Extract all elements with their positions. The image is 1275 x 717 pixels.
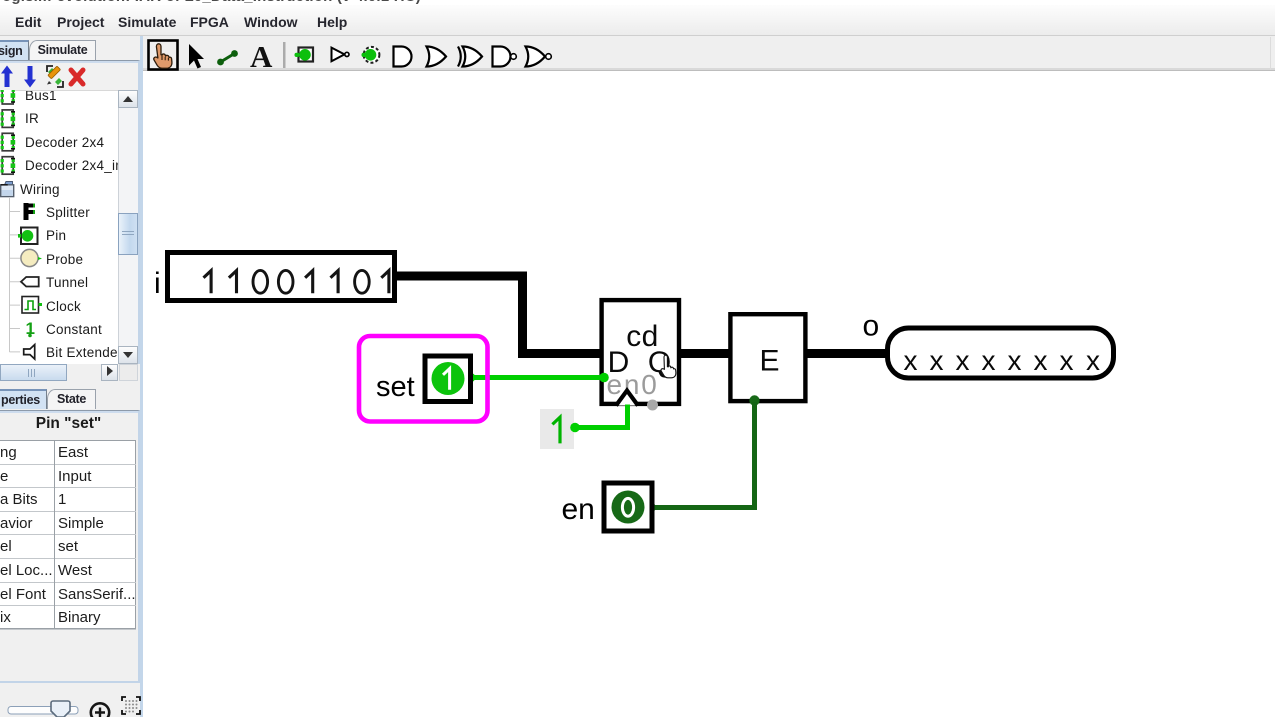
wire bus from pin i to register D <box>396 276 608 354</box>
tree rows <box>0 91 118 364</box>
bottom tabs <box>0 389 47 409</box>
wire en to E enable (value 0, dark green) <box>651 402 755 508</box>
controlled buffer E <box>730 314 805 401</box>
chips for Bus1 / IR / Decoder / Decoder_in <box>1 87 16 175</box>
top tabs <box>0 40 29 60</box>
E enable pin dot <box>749 395 759 405</box>
divider and canvas <box>140 36 143 717</box>
clock icon <box>22 297 39 314</box>
poke cursor at Q <box>661 355 676 378</box>
menu bar <box>0 5 1275 36</box>
wire constant to clock (value 1) <box>575 405 628 428</box>
tree box <box>0 60 140 382</box>
tree v-scrollbar <box>118 90 138 364</box>
wire set to register en (value 1, bright green) <box>471 375 605 380</box>
value 11001101 <box>204 270 389 293</box>
splitter icon <box>24 203 29 220</box>
probe icon <box>21 249 38 266</box>
wire bus register Q to E <box>672 349 733 358</box>
clock input triangle <box>616 391 638 406</box>
selection halo (magenta) around pin set <box>359 336 488 422</box>
pin icon <box>21 228 38 245</box>
output pin o <box>888 328 1114 378</box>
pin en <box>604 483 652 531</box>
bottom bar <box>0 684 143 717</box>
wire bus E to output o <box>805 349 886 358</box>
tunnel icon <box>21 277 39 287</box>
properties <box>0 410 140 683</box>
input pin i <box>168 253 395 301</box>
folder (Wiring) <box>5 182 13 186</box>
tree h-scrollbar <box>0 364 140 382</box>
constant 1 <box>540 409 574 449</box>
pin set <box>425 356 471 402</box>
toolbar band <box>143 36 1275 71</box>
register U1 (cd) <box>602 300 679 404</box>
bit extender icon <box>24 345 35 359</box>
window title sliver <box>0 0 1275 5</box>
unconnected pin (gray dot) <box>647 400 658 411</box>
left panel <box>0 36 140 717</box>
